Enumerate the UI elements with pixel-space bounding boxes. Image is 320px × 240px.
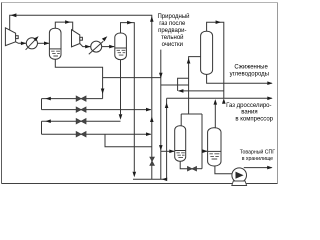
svg-text:углеводороды: углеводороды — [230, 71, 269, 77]
svg-text:в хранилище: в хранилище — [242, 156, 273, 162]
svg-text:вания: вания — [241, 110, 257, 116]
svg-text:тельной: тельной — [161, 34, 183, 41]
svg-text:очистки: очистки — [162, 42, 183, 48]
svg-text:газ после: газ после — [159, 21, 186, 27]
svg-text:Товарный СПГ: Товарный СПГ — [240, 149, 276, 156]
svg-text:Газ дросселиро-: Газ дросселиро- — [226, 103, 271, 109]
svg-text:Сжиженные: Сжиженные — [234, 65, 268, 71]
svg-text:Природный: Природный — [157, 13, 189, 20]
svg-text:предвари-: предвари- — [158, 28, 186, 34]
svg-text:в компрессор: в компрессор — [235, 117, 273, 123]
